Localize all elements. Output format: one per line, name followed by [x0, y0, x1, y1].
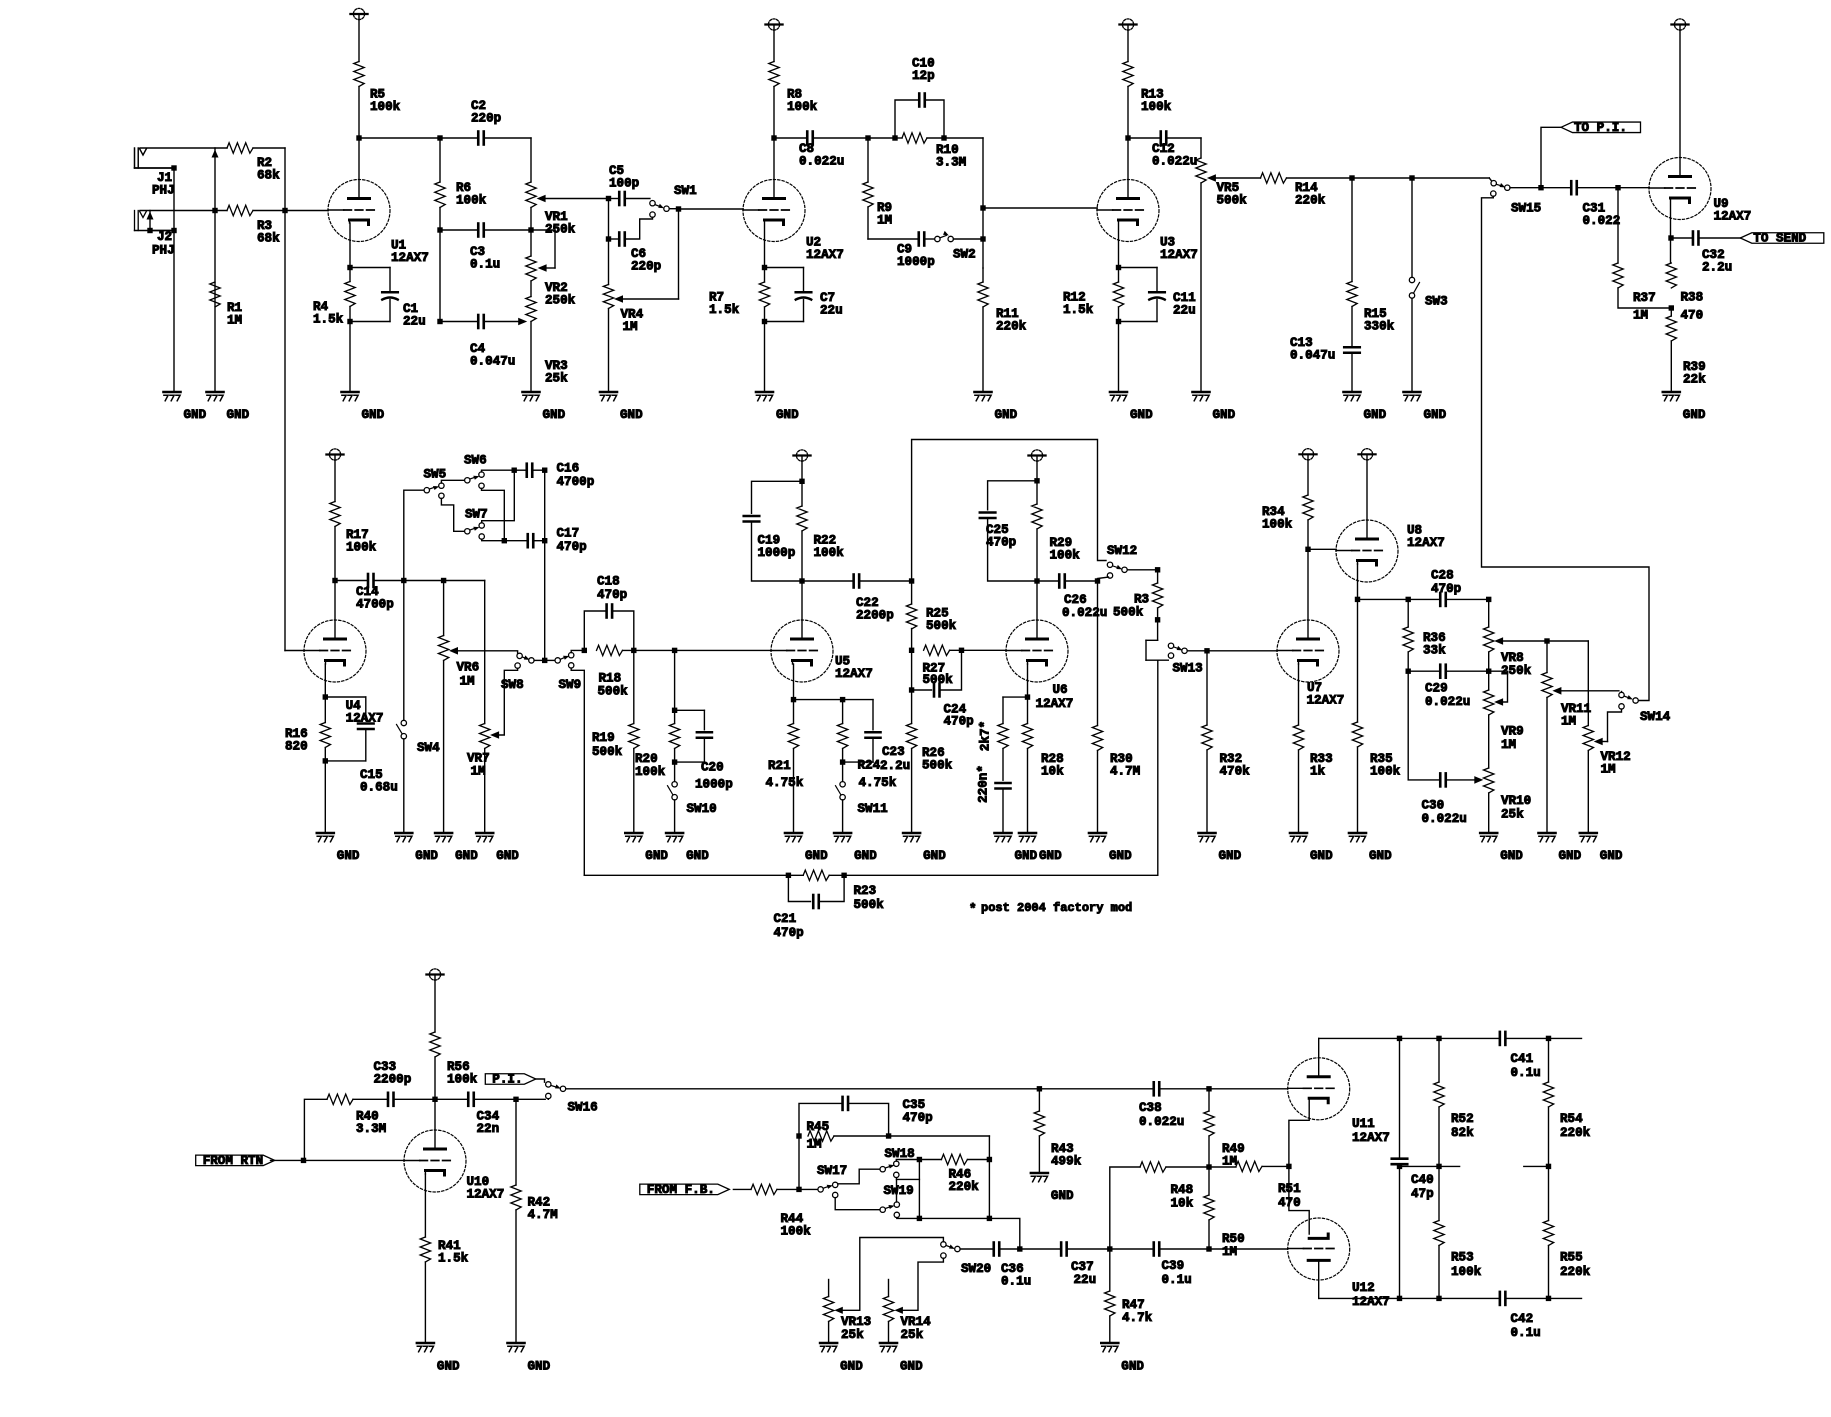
- svg-text:0.1u: 0.1u: [470, 258, 500, 272]
- svg-text:GND: GND: [1219, 849, 1242, 863]
- svg-text:100k: 100k: [1141, 100, 1172, 114]
- svg-text:TO SEND: TO SEND: [1753, 232, 1806, 246]
- svg-text:R52: R52: [1451, 1112, 1474, 1126]
- svg-text:GND: GND: [1310, 849, 1333, 863]
- svg-text:FROM F.B.: FROM F.B.: [647, 1183, 715, 1197]
- svg-text:VR7: VR7: [467, 752, 490, 766]
- svg-text:470p: 470p: [944, 715, 974, 729]
- svg-text:U12: U12: [1352, 1281, 1375, 1295]
- svg-text:C16: C16: [557, 462, 580, 476]
- svg-text:FROM RTN: FROM RTN: [203, 1154, 263, 1168]
- svg-text:470p: 470p: [903, 1111, 933, 1125]
- svg-text:2.2u: 2.2u: [880, 759, 910, 773]
- svg-text:100k: 100k: [447, 1073, 478, 1087]
- svg-text:SW3: SW3: [1425, 295, 1448, 309]
- svg-text:470p: 470p: [597, 588, 627, 602]
- svg-text:820: 820: [285, 740, 308, 754]
- svg-text:GND: GND: [1369, 849, 1392, 863]
- svg-text:U11: U11: [1352, 1117, 1375, 1131]
- svg-text:GND: GND: [415, 849, 438, 863]
- svg-text:0.022u: 0.022u: [1152, 155, 1197, 169]
- svg-text:220p: 220p: [471, 112, 501, 126]
- svg-text:SW2: SW2: [953, 248, 976, 262]
- svg-text:22u: 22u: [1173, 304, 1196, 318]
- svg-text:12p: 12p: [912, 69, 935, 83]
- svg-text:SW17: SW17: [817, 1164, 847, 1178]
- svg-text:33k: 33k: [1423, 644, 1446, 658]
- svg-text:U6: U6: [1053, 683, 1068, 697]
- svg-text:SW1: SW1: [674, 184, 697, 198]
- svg-text:GND: GND: [1130, 408, 1153, 422]
- svg-text:68k: 68k: [257, 169, 280, 183]
- svg-text:1M: 1M: [807, 1138, 822, 1152]
- svg-text:C35: C35: [903, 1098, 926, 1112]
- svg-text:1M: 1M: [227, 314, 242, 328]
- svg-text:500k: 500k: [926, 619, 957, 633]
- svg-text:500k: 500k: [598, 685, 629, 699]
- svg-text:GND: GND: [1364, 408, 1387, 422]
- svg-text:SW5: SW5: [424, 468, 447, 482]
- svg-text:C30: C30: [1422, 799, 1445, 813]
- svg-text:R47: R47: [1122, 1298, 1145, 1312]
- svg-text:C40: C40: [1411, 1173, 1434, 1187]
- svg-text:GND: GND: [528, 1360, 551, 1374]
- svg-text:GND: GND: [776, 408, 799, 422]
- svg-text:GND: GND: [184, 408, 207, 422]
- svg-text:GND: GND: [1109, 849, 1132, 863]
- svg-text:12AX7: 12AX7: [391, 251, 429, 265]
- svg-text:470p: 470p: [986, 536, 1016, 550]
- svg-text:68k: 68k: [257, 232, 280, 246]
- svg-text:0.1u: 0.1u: [1511, 1066, 1541, 1080]
- svg-text:GND: GND: [840, 1360, 863, 1374]
- svg-text:470p: 470p: [774, 926, 804, 940]
- svg-text:0.047u: 0.047u: [470, 355, 515, 369]
- svg-text:100k: 100k: [635, 765, 666, 779]
- svg-text:GND: GND: [1213, 408, 1236, 422]
- svg-text:100k: 100k: [1050, 549, 1081, 563]
- svg-text:12AX7: 12AX7: [1407, 536, 1445, 550]
- svg-text:C28: C28: [1431, 569, 1454, 583]
- svg-text:GND: GND: [362, 408, 385, 422]
- svg-text:SW13: SW13: [1173, 662, 1203, 676]
- svg-text:1M: 1M: [623, 320, 638, 334]
- svg-text:R38: R38: [1681, 291, 1704, 305]
- svg-text:470p: 470p: [1431, 582, 1461, 596]
- svg-text:220n*: 220n*: [977, 765, 991, 803]
- svg-text:2200p: 2200p: [374, 1073, 412, 1087]
- svg-text:4.75k: 4.75k: [859, 776, 897, 790]
- svg-text:GND: GND: [227, 408, 250, 422]
- svg-text:R54: R54: [1560, 1112, 1583, 1126]
- svg-text:*: *: [969, 903, 977, 917]
- svg-text:470p: 470p: [557, 540, 587, 554]
- svg-text:C23: C23: [882, 745, 905, 759]
- svg-text:10k: 10k: [1171, 1197, 1194, 1211]
- svg-text:1.5k: 1.5k: [709, 303, 740, 317]
- svg-text:220k: 220k: [996, 320, 1027, 334]
- svg-text:C42: C42: [1511, 1312, 1534, 1326]
- svg-text:SW6: SW6: [464, 454, 487, 468]
- svg-text:4700p: 4700p: [356, 598, 394, 612]
- svg-text:R24: R24: [858, 759, 881, 773]
- svg-text:R37: R37: [1633, 291, 1656, 305]
- svg-text:330k: 330k: [1364, 320, 1395, 334]
- svg-text:GND: GND: [455, 849, 478, 863]
- svg-text:1M: 1M: [877, 214, 892, 228]
- svg-text:GND: GND: [1683, 408, 1706, 422]
- svg-text:GND: GND: [1015, 849, 1038, 863]
- svg-text:10k: 10k: [1041, 765, 1064, 779]
- svg-text:1000p: 1000p: [695, 778, 733, 792]
- svg-text:R18: R18: [599, 672, 622, 686]
- svg-text:1.5k: 1.5k: [438, 1252, 469, 1266]
- svg-text:4700p: 4700p: [557, 475, 595, 489]
- svg-text:SW9: SW9: [559, 678, 582, 692]
- svg-text:GND: GND: [437, 1360, 460, 1374]
- svg-text:C18: C18: [597, 575, 620, 589]
- svg-text:500k: 500k: [1217, 194, 1248, 208]
- svg-text:SW19: SW19: [884, 1184, 914, 1198]
- svg-text:12AX7: 12AX7: [806, 248, 844, 262]
- svg-text:12AX7: 12AX7: [1352, 1295, 1390, 1309]
- svg-text:SW11: SW11: [858, 802, 889, 816]
- svg-text:PHJ: PHJ: [152, 183, 175, 197]
- svg-text:R23: R23: [854, 884, 877, 898]
- svg-text:499k: 499k: [1051, 1155, 1082, 1169]
- svg-text:1000p: 1000p: [758, 546, 796, 560]
- svg-text:R55: R55: [1560, 1251, 1583, 1265]
- svg-text:12AX7: 12AX7: [1307, 694, 1345, 708]
- svg-text:0.1u: 0.1u: [1001, 1275, 1031, 1289]
- svg-text:1.5k: 1.5k: [1063, 303, 1094, 317]
- svg-text:R50: R50: [1222, 1232, 1245, 1246]
- svg-text:3.3M: 3.3M: [356, 1122, 386, 1136]
- svg-text:TO P.I.: TO P.I.: [1574, 121, 1627, 135]
- svg-text:100k: 100k: [1370, 765, 1401, 779]
- svg-text:GND: GND: [1559, 849, 1582, 863]
- svg-text:0.022u: 0.022u: [1139, 1115, 1184, 1129]
- svg-text:1M: 1M: [460, 675, 475, 689]
- svg-text:GND: GND: [645, 849, 668, 863]
- svg-text:GND: GND: [686, 849, 709, 863]
- svg-text:250k: 250k: [545, 294, 576, 308]
- svg-text:C26: C26: [1064, 593, 1087, 607]
- svg-text:C29: C29: [1425, 682, 1448, 696]
- svg-text:GND: GND: [900, 1360, 923, 1374]
- svg-text:SW20: SW20: [961, 1262, 991, 1276]
- svg-text:470: 470: [1681, 309, 1704, 323]
- svg-text:100k: 100k: [1262, 518, 1293, 532]
- svg-text:P.I.: P.I.: [492, 1073, 522, 1087]
- svg-text:SW14: SW14: [1640, 710, 1671, 724]
- svg-text:R19: R19: [592, 731, 615, 745]
- svg-text:GND: GND: [543, 408, 566, 422]
- svg-text:1M: 1M: [471, 765, 486, 779]
- svg-text:GND: GND: [1500, 849, 1523, 863]
- svg-text:R21: R21: [768, 759, 791, 773]
- svg-text:25k: 25k: [1501, 808, 1524, 822]
- svg-text:C39: C39: [1162, 1259, 1185, 1273]
- svg-text:25k: 25k: [841, 1328, 864, 1342]
- svg-text:100k: 100k: [456, 194, 487, 208]
- svg-text:SW15: SW15: [1511, 202, 1541, 216]
- svg-text:0.022u: 0.022u: [799, 155, 844, 169]
- svg-text:12AX7: 12AX7: [835, 667, 873, 681]
- svg-text:GND: GND: [1051, 1189, 1074, 1203]
- svg-text:1M: 1M: [1633, 309, 1648, 323]
- svg-text:0.022u: 0.022u: [1062, 606, 1107, 620]
- svg-text:0.047u: 0.047u: [1290, 349, 1335, 363]
- svg-text:500k: 500k: [1113, 606, 1144, 620]
- svg-text:GND: GND: [620, 408, 643, 422]
- svg-text:220p: 220p: [631, 260, 661, 274]
- svg-text:2200p: 2200p: [856, 609, 894, 623]
- svg-text:12AX7: 12AX7: [467, 1188, 505, 1202]
- svg-text:1000p: 1000p: [897, 255, 935, 269]
- svg-text:22u: 22u: [403, 315, 426, 329]
- svg-text:22u: 22u: [820, 304, 843, 318]
- svg-text:R53: R53: [1451, 1251, 1474, 1265]
- svg-text:0.68u: 0.68u: [360, 781, 398, 795]
- svg-text:GND: GND: [923, 849, 946, 863]
- svg-text:0.022u: 0.022u: [1422, 812, 1467, 826]
- svg-text:C37: C37: [1071, 1260, 1094, 1274]
- svg-text:22k: 22k: [1683, 373, 1706, 387]
- svg-text:1M: 1M: [1222, 1245, 1237, 1259]
- svg-text:4.7M: 4.7M: [528, 1208, 558, 1222]
- svg-text:0.1u: 0.1u: [1511, 1326, 1541, 1340]
- svg-text:500k: 500k: [592, 745, 623, 759]
- svg-text:12AX7: 12AX7: [1160, 248, 1198, 262]
- svg-text:VR9: VR9: [1501, 725, 1524, 739]
- svg-text:500k: 500k: [923, 673, 954, 687]
- svg-text:12AX7: 12AX7: [1714, 210, 1752, 224]
- svg-text:GND: GND: [805, 849, 828, 863]
- svg-text:500k: 500k: [922, 759, 953, 773]
- svg-text:VR14: VR14: [901, 1315, 932, 1329]
- svg-text:post 2004 factory mod: post 2004 factory mod: [981, 901, 1132, 915]
- svg-text:4.75k: 4.75k: [766, 776, 804, 790]
- svg-text:1.5k: 1.5k: [313, 313, 344, 327]
- svg-text:1M: 1M: [1601, 763, 1616, 777]
- svg-text:500k: 500k: [854, 898, 885, 912]
- svg-text:C38: C38: [1139, 1101, 1162, 1115]
- svg-text:GND: GND: [854, 849, 877, 863]
- svg-text:GND: GND: [1600, 849, 1623, 863]
- svg-text:SW7: SW7: [465, 508, 488, 522]
- svg-text:100k: 100k: [1451, 1265, 1482, 1279]
- svg-text:R48: R48: [1171, 1183, 1194, 1197]
- svg-text:3.3M: 3.3M: [936, 156, 966, 170]
- svg-text:100k: 100k: [370, 100, 401, 114]
- svg-text:470k: 470k: [1220, 765, 1251, 779]
- svg-text:12AX7: 12AX7: [346, 712, 384, 726]
- svg-text:1M: 1M: [1501, 738, 1516, 752]
- svg-text:GND: GND: [1039, 849, 1062, 863]
- svg-text:VR13: VR13: [841, 1315, 871, 1329]
- svg-text:C20: C20: [701, 761, 724, 775]
- svg-text:100k: 100k: [781, 1225, 812, 1239]
- svg-text:R20: R20: [635, 752, 658, 766]
- svg-text:GND: GND: [995, 408, 1018, 422]
- svg-text:0.022u: 0.022u: [1425, 695, 1470, 709]
- svg-text:25k: 25k: [545, 372, 568, 386]
- svg-text:2k7*: 2k7*: [979, 721, 993, 751]
- svg-text:100k: 100k: [346, 541, 377, 555]
- svg-text:0.022: 0.022: [1583, 214, 1621, 228]
- svg-text:VR8: VR8: [1501, 651, 1524, 665]
- svg-text:SW16: SW16: [568, 1101, 598, 1115]
- svg-text:GND: GND: [1424, 408, 1447, 422]
- svg-text:VR6: VR6: [457, 661, 480, 675]
- svg-text:GND: GND: [337, 849, 360, 863]
- svg-text:22u: 22u: [1074, 1273, 1097, 1287]
- svg-text:4.7M: 4.7M: [1110, 765, 1140, 779]
- svg-text:SW4: SW4: [417, 741, 440, 755]
- svg-text:47p: 47p: [1411, 1187, 1434, 1201]
- svg-text:250k: 250k: [545, 223, 576, 237]
- svg-text:2.2u: 2.2u: [1702, 261, 1732, 275]
- svg-text:0.1u: 0.1u: [1162, 1273, 1192, 1287]
- svg-text:12AX7: 12AX7: [1036, 697, 1074, 711]
- svg-text:GND: GND: [1121, 1360, 1144, 1374]
- svg-text:PHJ: PHJ: [152, 243, 175, 257]
- svg-text:12AX7: 12AX7: [1352, 1131, 1390, 1145]
- svg-text:220k: 220k: [1560, 1265, 1591, 1279]
- svg-text:220k: 220k: [1295, 194, 1326, 208]
- svg-text:25k: 25k: [901, 1328, 924, 1342]
- svg-text:R45: R45: [807, 1120, 830, 1134]
- svg-text:SW10: SW10: [687, 802, 717, 816]
- svg-text:GND: GND: [496, 849, 519, 863]
- svg-text:220k: 220k: [1560, 1126, 1591, 1140]
- svg-text:100p: 100p: [609, 177, 639, 191]
- svg-text:100k: 100k: [814, 546, 845, 560]
- svg-text:1M: 1M: [1561, 715, 1576, 729]
- svg-text:1k: 1k: [1310, 765, 1326, 779]
- svg-text:J2: J2: [157, 230, 172, 244]
- svg-text:C41: C41: [1511, 1052, 1534, 1066]
- svg-text:SW8: SW8: [501, 678, 524, 692]
- svg-text:C17: C17: [557, 527, 580, 541]
- svg-text:C21: C21: [774, 912, 797, 926]
- svg-text:4.7k: 4.7k: [1122, 1311, 1153, 1325]
- svg-text:SW12: SW12: [1107, 544, 1137, 558]
- svg-text:22n: 22n: [477, 1122, 500, 1136]
- svg-text:R3: R3: [1134, 593, 1149, 607]
- svg-text:82k: 82k: [1451, 1126, 1474, 1140]
- svg-text:VR10: VR10: [1501, 794, 1531, 808]
- svg-text:100k: 100k: [787, 100, 818, 114]
- svg-text:220k: 220k: [949, 1180, 980, 1194]
